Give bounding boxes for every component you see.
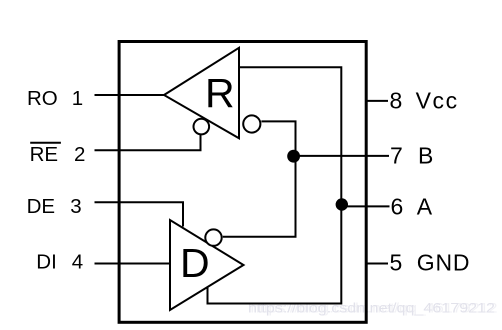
svg-text:DI: DI	[36, 251, 57, 274]
svg-text:2: 2	[74, 143, 85, 166]
svg-text:DE: DE	[27, 195, 55, 218]
svg-text:3: 3	[70, 195, 81, 218]
svg-text:B: B	[418, 142, 433, 168]
svg-text:RE: RE	[30, 143, 58, 166]
svg-text:5: 5	[390, 249, 403, 275]
svg-text:8: 8	[390, 88, 403, 114]
svg-text:7: 7	[390, 142, 403, 168]
svg-text:4: 4	[72, 251, 83, 274]
svg-text:RO: RO	[27, 87, 58, 110]
svg-text:6: 6	[391, 193, 404, 219]
svg-text:R: R	[205, 70, 235, 116]
svg-text:A: A	[417, 193, 433, 219]
svg-text:Vcc: Vcc	[416, 88, 459, 114]
svg-text:GND: GND	[417, 249, 471, 275]
svg-text:1: 1	[72, 87, 83, 110]
svg-text:D: D	[180, 240, 210, 286]
